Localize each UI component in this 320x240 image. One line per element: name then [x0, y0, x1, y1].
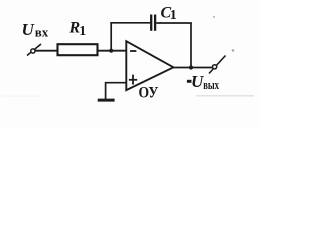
svg-text:U: U [191, 72, 204, 91]
svg-text:ОУ: ОУ [139, 85, 159, 102]
svg-text:U: U [22, 20, 35, 39]
svg-text:вх: вх [35, 25, 49, 40]
svg-text:1: 1 [79, 24, 86, 39]
svg-text:1: 1 [170, 8, 177, 23]
svg-text:вых: вых [203, 77, 219, 92]
